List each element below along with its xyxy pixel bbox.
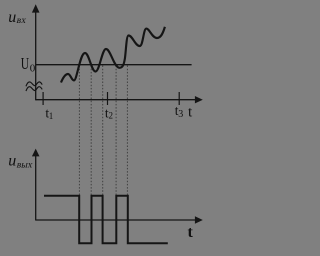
bottom graph horizontal axis (t): [36, 219, 197, 221]
dashed crossing line 3: [102, 66, 104, 196]
bottom horizontal axis arrowhead: [195, 216, 203, 223]
dashed crossing line 2: [90, 66, 92, 196]
svg-text:3: 3: [178, 109, 183, 120]
svg-text:1: 1: [49, 111, 54, 121]
tick t1: [42, 92, 44, 105]
tick t3: [178, 92, 180, 105]
dashed crossing line 4: [115, 66, 117, 196]
axis break symbol upper squiggle: [26, 82, 42, 86]
dashed crossing line 5: [126, 66, 128, 196]
axis break symbol lower squiggle: [26, 87, 42, 91]
svg-text:u: u: [8, 9, 16, 26]
threshold line U0: [36, 64, 192, 66]
top vertical axis arrowhead: [32, 4, 40, 12]
svg-text:0: 0: [30, 63, 36, 75]
top graph vertical axis: [35, 11, 37, 100]
output square wave: [44, 196, 168, 244]
svg-text:u: u: [8, 152, 16, 169]
input signal wave: [61, 27, 165, 83]
dashed crossing line 1: [78, 66, 80, 196]
tick t2: [107, 92, 109, 105]
bottom vertical axis arrowhead: [32, 149, 40, 157]
top graph horizontal axis (t): [36, 99, 197, 101]
svg-text:2: 2: [109, 111, 114, 121]
bottom graph vertical axis: [35, 155, 37, 221]
svg-text:t: t: [188, 224, 194, 241]
svg-text:U: U: [21, 54, 29, 73]
top horizontal axis arrowhead: [195, 96, 203, 103]
svg-text:вых: вых: [16, 160, 34, 171]
